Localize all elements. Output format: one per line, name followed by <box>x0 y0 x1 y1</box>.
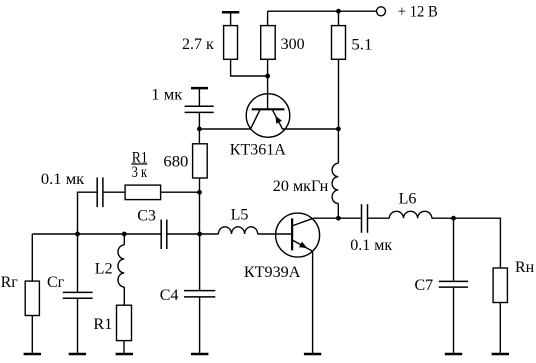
svg-text:2.7 к: 2.7 к <box>182 36 214 53</box>
svg-text:КТ361А: КТ361А <box>230 141 286 158</box>
ground Rg <box>24 353 41 356</box>
transistor KT939A (NPN) <box>244 213 320 281</box>
inductor L2 <box>95 234 125 305</box>
ground C4 <box>191 353 208 356</box>
wire 5.1 bottom to emitter node <box>338 59 340 129</box>
svg-text:1 мк: 1 мк <box>151 87 182 104</box>
svg-text:3 к: 3 к <box>132 164 148 181</box>
svg-text:Rг: Rг <box>1 274 19 291</box>
node junction 2.7k/300 <box>265 74 270 79</box>
wire input main line <box>32 233 160 235</box>
inductor L5 <box>218 206 292 234</box>
terminal +12 V <box>377 3 438 20</box>
ground Rn <box>492 353 509 356</box>
wire Q1 emitter to 5.1 node <box>283 128 339 130</box>
svg-text:Сг: Сг <box>47 274 65 291</box>
wire Q2 collector to output node <box>314 217 339 219</box>
inductor 20 mkGn choke <box>273 129 339 218</box>
svg-text:КТ939А: КТ939А <box>244 264 301 281</box>
capacitor C3 <box>137 207 218 249</box>
resistor Rg (source) <box>1 234 40 353</box>
node junction C3/680/C4 <box>197 232 202 237</box>
capacitor 1 uk <box>151 87 213 129</box>
svg-text:0.1 мк: 0.1 мк <box>350 237 392 254</box>
node junction collector/choke/output <box>336 216 341 221</box>
node junction input/L2 <box>122 232 127 237</box>
capacitor C7 <box>415 218 469 353</box>
wire 300 bottom to Q1 base <box>267 59 269 109</box>
capacitor 0.1 uk (output) <box>338 204 392 254</box>
resistor 300 <box>261 26 305 60</box>
node junction emitter/5.1/choke <box>336 126 341 131</box>
wire 2.7k bottom to node under 300 <box>231 59 268 76</box>
resistor 680 <box>163 129 207 192</box>
ground Q2 emitter <box>304 353 321 356</box>
node junction 680/R1 <box>197 190 202 195</box>
svg-text:5.1: 5.1 <box>351 36 372 53</box>
ground C7 <box>445 353 462 356</box>
svg-text:680: 680 <box>163 153 188 170</box>
svg-text:L2: L2 <box>95 261 113 278</box>
resistor R1 3k (feedback) <box>125 149 199 199</box>
svg-text:0.1 мк: 0.1 мк <box>41 171 85 188</box>
capacitor C4 <box>160 234 216 353</box>
capacitor 0.1 uk (feedback) <box>41 171 125 234</box>
wire 300 top to +12V rail <box>268 11 376 25</box>
svg-text:C4: C4 <box>160 287 179 304</box>
wire 680 node down to input line <box>199 192 201 234</box>
resistor 5.1 <box>332 11 373 59</box>
svg-text:+ 12 В: + 12 В <box>398 3 438 20</box>
node junction L6/C7/Rn <box>451 216 456 221</box>
inductor L6 <box>389 191 453 219</box>
svg-text:L5: L5 <box>231 206 249 223</box>
node junction top rail / 5.1 <box>336 9 341 14</box>
wire Q1 collector to 1uk node <box>199 128 250 130</box>
transistor KT361A (PNP) <box>230 94 290 159</box>
resistor Rn (load) <box>493 259 535 353</box>
node junction input/Cg <box>75 232 80 237</box>
rail bar terminal above resistor 2.7k <box>222 12 239 25</box>
ground R1 <box>116 353 133 356</box>
rail bar terminal above capacitor 1uk <box>191 88 208 106</box>
wire output node to Rn <box>454 218 501 268</box>
svg-text:R1: R1 <box>93 316 112 333</box>
svg-text:C3: C3 <box>137 207 156 224</box>
node junction 1uk/680/collector <box>197 126 202 131</box>
svg-text:L6: L6 <box>399 191 417 208</box>
wire Q2 emitter down <box>312 251 314 353</box>
resistor 2.7 k <box>182 26 237 60</box>
svg-text:Rн: Rн <box>515 259 535 276</box>
ground Cg <box>69 353 86 356</box>
svg-text:20 мкГн: 20 мкГн <box>273 178 329 195</box>
svg-text:300: 300 <box>281 36 305 53</box>
svg-text:C7: C7 <box>415 277 434 294</box>
capacitor Cg <box>47 234 93 353</box>
resistor R1 (bottom) <box>93 305 131 353</box>
